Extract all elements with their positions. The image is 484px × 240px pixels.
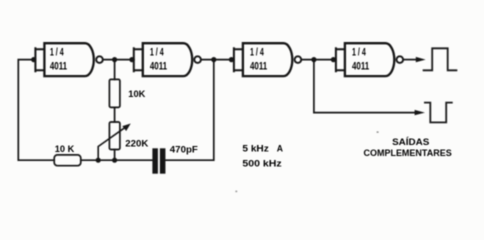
svg-text:10K: 10K [128,89,145,100]
waveform: Q-bar output negative pulse [425,103,452,123]
resistor R1 10K (horizontal, feedback) [54,155,81,166]
input bracket U2a (both inputs tied) [134,48,143,71]
wire: left feedback rail from gate1 input down and along bottom to R1 [18,60,54,161]
NAND gate U4a (1/4 4011) body [345,43,394,76]
output bubble U2a [194,56,201,63]
arrowhead of P1 wiper [122,124,130,132]
junction dot: P1 bottom tie point [112,158,117,163]
input bracket U1a (both inputs tied) [35,48,44,71]
input bracket U3a (both inputs tied) [234,48,243,71]
speck artifact above SAÍDAS [377,131,379,132]
svg-text:1 / 4: 1 / 4 [50,46,64,58]
arrowhead at Q-bar output [415,110,425,115]
junction node B (capacitor feedback tap) [211,57,216,62]
junction node A (top of RC chain) [112,57,117,62]
wire: U4a output with arrow to Q waveform [404,59,417,61]
wire: U2a output to U3a input [201,59,234,61]
junction dot at U3a input [229,57,234,62]
junction dot at U4a input [331,57,336,62]
svg-text:5 kHz: 5 kHz [242,144,269,155]
svg-text:1 / 4: 1 / 4 [250,46,264,58]
NAND gate U3a (1/4 4011) body [243,43,292,76]
svg-text:1 / 4: 1 / 4 [352,46,366,58]
input bracket U4a (both inputs tied) [336,48,345,71]
wire: node A down to R2 [114,60,116,80]
NAND gate U2a (1/4 4011) body [143,43,192,76]
svg-text:10 K: 10 K [55,144,75,155]
svg-text:4011: 4011 [150,60,167,72]
svg-text:1 / 4: 1 / 4 [150,46,164,58]
output bubble U3a [295,56,302,63]
svg-text:SAÍDAS: SAÍDAS [392,137,429,147]
junction dot: wiper tie point [96,158,101,163]
waveform: Q output positive pulse [424,48,457,70]
speck artifact bottom center [235,191,237,193]
NAND gate U1a (1/4 4011) body [44,43,93,76]
wire: U1a output to U2a input [103,59,134,61]
svg-text:4011: 4011 [352,60,369,72]
wire: R1 to capacitor C1 [81,159,153,161]
junction dot at U1a input [31,57,36,62]
capacitor C1 470pF plate 1 [152,148,158,173]
junction dot at U2a input [129,57,134,62]
svg-text:500 kHz: 500 kHz [242,159,282,170]
wire: node C down and across to Q-bar waveform with arrow [314,60,415,113]
output bubble U4a [397,56,404,63]
wire: U3a output to U4a input [302,59,336,61]
svg-text:470pF: 470pF [170,144,198,155]
arrowhead at Q output [416,57,426,62]
svg-text:4011: 4011 [50,60,67,72]
trimpot P1 wiper arrow (tied to bottom rail) [98,127,125,160]
wire: P1 bottom to bottom rail [114,150,116,161]
svg-text:COMPLEMENTARES: COMPLEMENTARES [364,148,452,158]
output bubble U1a [96,56,103,63]
capacitor C1 470pF plate 2 [160,148,166,173]
wire: C1 right plate up to node B [165,60,213,161]
wire: R2 to trimmer P1 [114,107,116,122]
svg-text:4011: 4011 [250,60,267,72]
resistor R2 10K (vertical) [109,79,120,107]
trimpot P1 220K body [109,122,120,150]
junction node C (complementary branch tap) [311,57,316,62]
svg-text:220K: 220K [125,139,148,150]
svg-text:A: A [277,144,283,155]
